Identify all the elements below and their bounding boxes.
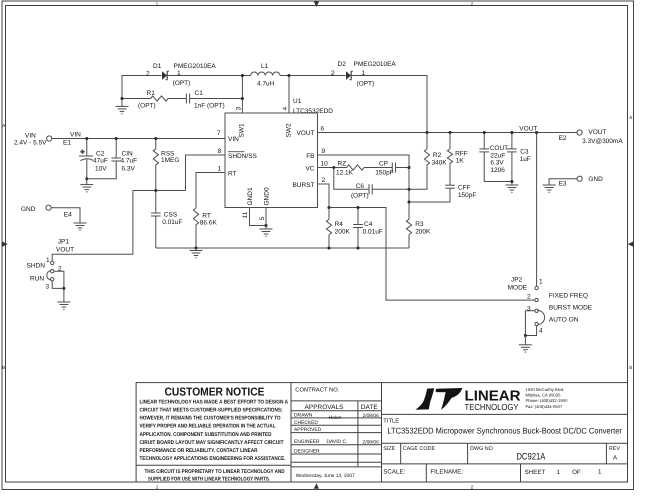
capacitor CIN <box>111 158 121 161</box>
svg-text:200K: 200K <box>335 229 351 236</box>
svg-text:JP1: JP1 <box>58 239 70 246</box>
svg-text:6.3V: 6.3V <box>490 160 504 167</box>
jumper JP1 pin 1 circle <box>51 261 54 264</box>
jumper JP2 pin 4 circle <box>535 322 538 325</box>
jumper JP1 shunt arc <box>47 271 52 281</box>
capacitor C2 (polarized) <box>79 150 93 161</box>
title block outline <box>136 383 627 482</box>
svg-text:4: 4 <box>282 107 289 111</box>
svg-text:86.6K: 86.6K <box>200 220 218 227</box>
resistor R1 <box>151 96 169 101</box>
svg-text:2: 2 <box>322 177 326 184</box>
svg-text:LINEAR TECHNOLOGY HAS MADE A B: LINEAR TECHNOLOGY HAS MADE A BEST EFFORT… <box>140 399 289 405</box>
svg-text:TITLE: TITLE <box>383 418 399 424</box>
svg-text:SHEET: SHEET <box>525 469 546 476</box>
center marker arrow bottom <box>314 483 319 489</box>
op-amp U1 body (LTC3532EDD) <box>225 113 318 208</box>
approvals row line 1 <box>291 417 382 419</box>
svg-text:2: 2 <box>58 266 62 273</box>
logo box bottom line <box>382 413 628 415</box>
svg-text:U1: U1 <box>293 98 302 105</box>
pin GND1 lead <box>250 208 267 226</box>
svg-text:R2: R2 <box>433 152 442 159</box>
wire COUT bottom to C3 ground node <box>484 152 512 182</box>
svg-text:VOUT: VOUT <box>519 125 537 132</box>
title block divider customer-notice/approvals <box>290 383 292 482</box>
svg-text:(OPT): (OPT) <box>351 193 369 200</box>
svg-text:VOUT: VOUT <box>296 130 314 137</box>
svg-text:RUN: RUN <box>30 276 44 283</box>
svg-text:L1: L1 <box>261 63 269 70</box>
svg-text:RT: RT <box>228 170 237 177</box>
capacitor C1 <box>186 94 189 104</box>
svg-text:1: 1 <box>598 468 602 475</box>
resistor RT <box>193 208 198 225</box>
svg-text:1: 1 <box>177 70 181 77</box>
svg-text:FILENAME:: FILENAME: <box>430 469 463 476</box>
svg-text:Milpitas, CA 95035: Milpitas, CA 95035 <box>526 393 562 398</box>
svg-text:SCALE:: SCALE: <box>383 469 405 476</box>
node dot BURST/R4 <box>327 206 330 209</box>
capacitor C4 <box>353 225 363 228</box>
svg-text:(OPT): (OPT) <box>138 103 156 110</box>
customer notice paragraph <box>140 399 289 482</box>
svg-text:R3: R3 <box>415 221 424 228</box>
svg-text:4: 4 <box>539 328 543 335</box>
ground below JP2 <box>524 336 526 345</box>
svg-text:C4: C4 <box>364 221 373 228</box>
svg-text:3.3V@300mA: 3.3V@300mA <box>582 138 623 145</box>
svg-text:E2: E2 <box>559 135 567 142</box>
node dot VIN/CIN <box>115 137 118 140</box>
svg-text:3: 3 <box>46 284 50 291</box>
ground at D1/R1 node <box>121 99 123 107</box>
resistor RSS branch wire top <box>155 139 157 149</box>
capacitor CSS wire top <box>155 191 157 214</box>
svg-text:B: B <box>629 365 632 370</box>
svg-text:2: 2 <box>527 294 531 301</box>
capacitor CFF <box>445 185 455 188</box>
wire VOUT to RFF <box>449 133 451 149</box>
jumper JP2 pin 3 circle <box>535 309 538 312</box>
svg-text:1K: 1K <box>456 158 465 165</box>
svg-text:JP2: JP2 <box>511 277 523 284</box>
pin GND0 lead <box>265 208 267 226</box>
capacitor C3 <box>507 149 517 152</box>
svg-text:SIZE: SIZE <box>383 446 395 452</box>
wire FB pin9 to FB riser <box>318 155 410 219</box>
svg-text:D2: D2 <box>338 61 347 68</box>
wire C4 bottom to rail <box>357 228 359 249</box>
diode D2 <box>346 71 353 79</box>
node dot RT/ground rail <box>194 246 197 249</box>
cagecode/dwgno divider <box>467 443 469 464</box>
svg-text:200K: 200K <box>415 229 431 236</box>
approvals rows text <box>294 413 379 479</box>
approvals row line 4 <box>291 444 382 446</box>
svg-text:1: 1 <box>557 469 561 476</box>
ground below C3 <box>505 185 518 192</box>
svg-text:2/08/06: 2/08/06 <box>363 413 380 419</box>
resistor RSS <box>153 149 158 165</box>
jumper JP2 pin 2 circle <box>535 298 538 301</box>
terminal E3 circle <box>577 176 582 181</box>
ground below JP1 <box>63 288 65 302</box>
wire D1 row left segment <box>122 76 162 99</box>
svg-text:BURST: BURST <box>292 182 314 189</box>
capacitor CP <box>392 163 395 173</box>
svg-text:Fax: (408)434-0507: Fax: (408)434-0507 <box>526 404 563 409</box>
svg-text:CIRUIT BOARD LAYOUT MAY SIGNIF: CIRUIT BOARD LAYOUT MAY SIGNIFICANTLY AF… <box>140 440 285 446</box>
node dot C4 top <box>356 206 359 209</box>
svg-text:DC921A: DC921A <box>516 452 546 463</box>
jumper JP1 pin 2 circle <box>51 270 54 273</box>
svg-text:SW2: SW2 <box>285 123 292 137</box>
wire RT pin to resistor <box>196 173 225 209</box>
wire VIN rail E1 to pin 7 <box>52 138 225 140</box>
svg-text:3: 3 <box>527 306 531 313</box>
svg-text:C2: C2 <box>96 151 105 158</box>
svg-text:SW1: SW1 <box>239 123 246 137</box>
ground below C2 <box>86 179 88 185</box>
svg-text:4.7uF: 4.7uF <box>121 158 138 165</box>
wire R1 to C1 <box>168 98 186 100</box>
svg-text:2.4V - 5.5V: 2.4V - 5.5V <box>14 140 47 147</box>
ground below E3 <box>543 185 556 192</box>
wire L1 to SW2 node to D2 <box>280 75 346 77</box>
wire VOUT to R2 top <box>426 133 428 150</box>
svg-text:GND0: GND0 <box>264 187 271 205</box>
svg-text:(OPT): (OPT) <box>357 81 375 88</box>
svg-text:1630 McCarthy Blvd.: 1630 McCarthy Blvd. <box>526 387 565 392</box>
svg-text:2: 2 <box>331 70 335 77</box>
svg-text:DATE: DATE <box>361 404 378 411</box>
svg-text:RFF: RFF <box>455 151 468 158</box>
wire RT bottom to rail <box>195 225 197 248</box>
capacitor C2 branch wire top <box>86 139 88 156</box>
node dot JP1 ground <box>62 287 65 290</box>
capacitor COUT <box>479 149 489 152</box>
inductor L1 <box>251 72 280 75</box>
svg-text:PMEG2010EA: PMEG2010EA <box>174 63 217 70</box>
svg-text:C6: C6 <box>356 183 365 190</box>
wire RFF to CFF <box>449 163 451 185</box>
center marker arrow left <box>2 242 8 247</box>
wire SW1 pin riser <box>241 76 243 114</box>
svg-text:E4: E4 <box>64 212 72 219</box>
svg-text:BURST MODE: BURST MODE <box>549 305 593 312</box>
svg-text:VERIFY PROPER AND RELIABLE OPE: VERIFY PROPER AND RELIABLE OPERATION IN … <box>140 424 277 430</box>
svg-text:MODE: MODE <box>508 285 528 292</box>
svg-text:E3: E3 <box>559 181 567 188</box>
svg-text:Phone: (408)432-1900: Phone: (408)432-1900 <box>526 398 569 403</box>
node dot JP2 ground <box>524 334 527 337</box>
svg-text:10V: 10V <box>95 166 107 173</box>
node dot RSS/CSS <box>154 189 157 192</box>
svg-text:SHDN/SS: SHDN/SS <box>228 153 258 160</box>
svg-text:HOWEVER, IT REMAINS THE CUSTOM: HOWEVER, IT REMAINS THE CUSTOMER'S RESPO… <box>140 416 281 422</box>
svg-text:R1: R1 <box>147 90 156 97</box>
svg-text:8: 8 <box>218 148 222 155</box>
svg-text:AUTO ON: AUTO ON <box>549 317 579 324</box>
svg-text:PERFORMANCE OR RELIABILITY. C: PERFORMANCE OR RELIABILITY. CONTACT LINE… <box>140 448 258 454</box>
wire CFF bottom to FB node <box>409 188 450 202</box>
wire RZ to CP <box>364 167 392 169</box>
wire C2 bottom to ground node <box>86 159 88 178</box>
wire R4 top stub <box>328 208 330 220</box>
terminal E4 circle <box>46 205 51 210</box>
svg-text:VC: VC <box>305 165 314 172</box>
wire JP2 pin4 to ground drop <box>525 326 536 336</box>
svg-text:CUSTOMER NOTICE: CUSTOMER NOTICE <box>165 386 265 398</box>
node dot SW1/L1 <box>241 74 244 77</box>
wire RSS bottom to SS node <box>155 165 157 191</box>
diode D1 <box>162 71 169 79</box>
svg-text:CAGE CODE: CAGE CODE <box>403 446 436 452</box>
wire R2 bottom to FB node <box>409 165 427 189</box>
svg-text:VIN: VIN <box>25 133 36 140</box>
node dot FB/CP <box>407 166 410 169</box>
svg-text:DRAWN: DRAWN <box>294 413 313 419</box>
svg-text:10: 10 <box>321 160 329 167</box>
svg-text:22uF: 22uF <box>490 152 505 159</box>
svg-text:CP: CP <box>379 161 388 168</box>
svg-text:FB: FB <box>306 153 314 160</box>
node dot FB/CFF <box>407 200 410 203</box>
resistor R4 <box>326 219 331 234</box>
svg-text:R4: R4 <box>335 221 344 228</box>
overline on SHDN pin name <box>228 151 245 153</box>
wire BURST pin2 down <box>318 184 330 208</box>
size row bottom line <box>382 463 628 465</box>
svg-text:6: 6 <box>321 125 325 132</box>
wire SS node horizontal <box>133 190 186 192</box>
approvals row line 6 <box>291 461 382 463</box>
node dot GND0/GND1 <box>264 224 267 227</box>
svg-text:VOUT: VOUT <box>56 247 74 254</box>
node dot D1/R1/ground <box>120 97 123 100</box>
approvals row line 3 <box>291 432 382 434</box>
wire D2 to corner then down to VOUT rail <box>351 76 427 133</box>
wire burst top rail to JP2 drop <box>329 208 535 301</box>
scale/filename divider <box>425 464 427 482</box>
svg-text:A: A <box>2 123 5 128</box>
node dot VC/C6 branch <box>332 166 335 169</box>
wire VOUT rail pin6 to E2 <box>318 132 578 134</box>
svg-text:3: 3 <box>235 107 242 111</box>
node dot COUT top <box>483 131 486 134</box>
svg-text:12.1K: 12.1K <box>336 170 354 177</box>
svg-text:1uF: 1uF <box>520 156 531 163</box>
node dot C3 top <box>510 131 513 134</box>
svg-text:RT: RT <box>202 213 211 220</box>
node dot C4/rail <box>356 246 359 249</box>
wire CIN bottom to ground node <box>87 161 116 179</box>
ground below E4 <box>74 223 87 230</box>
svg-text:DAVID C.: DAVID C. <box>327 439 348 445</box>
svg-text:1: 1 <box>46 257 50 264</box>
node dot SW1/R1C1 <box>241 97 244 100</box>
svg-text:1nF (OPT): 1nF (OPT) <box>194 103 225 110</box>
svg-text:SUPPLIED FOR USE WITH LINEAR T: SUPPLIED FOR USE WITH LINEAR TECHNOLOGY … <box>148 477 270 483</box>
svg-text:7: 7 <box>217 130 221 137</box>
svg-text:APPLICATION. COMPONENT SUBSTI: APPLICATION. COMPONENT SUBSTITUTION AND … <box>140 432 272 438</box>
svg-text:TECHNOLOGY APPLICATIONS ENGINE: TECHNOLOGY APPLICATIONS ENGINEERING FOR … <box>140 456 286 462</box>
wire C3 bottom to ground <box>511 152 513 185</box>
node dot COUT/C3 ground <box>510 180 513 183</box>
svg-text:LTC3532EDD Micropower Synchron: LTC3532EDD Micropower Synchronous Buck-B… <box>387 426 622 436</box>
wire SW2 pin riser <box>288 76 290 114</box>
svg-text:VIN: VIN <box>70 132 81 139</box>
svg-text:TECHNOLOGY: TECHNOLOGY <box>465 402 519 412</box>
ground rail bottom left <box>156 247 409 249</box>
approvals date column divider <box>357 401 359 467</box>
svg-text:ENGINEER: ENGINEER <box>294 439 320 445</box>
svg-text:APPROVALS: APPROVALS <box>305 404 344 411</box>
svg-text:1: 1 <box>362 70 366 77</box>
wire R1/C1 row <box>122 98 151 100</box>
approvals table bottom line <box>291 466 382 468</box>
svg-text:6.3V: 6.3V <box>122 166 136 173</box>
svg-text:CIN: CIN <box>122 151 134 158</box>
wire JP1 pin2 to ground drop <box>54 271 64 288</box>
svg-text:340K: 340K <box>432 160 448 167</box>
capacitor CIN branch wire top <box>115 139 117 159</box>
wire JP1 pin3 to ground drop <box>52 281 64 288</box>
svg-text:LTC3532EDD: LTC3532EDD <box>293 108 333 115</box>
svg-text:SHDN: SHDN <box>27 263 46 270</box>
title area bottom line <box>382 442 628 444</box>
terminal E1 circle <box>47 136 52 141</box>
resistor R2 <box>424 149 429 165</box>
capacitor COUT top stub <box>483 133 485 149</box>
node dot SW2/L1/D2 <box>287 74 290 77</box>
svg-text:PMEG2010EA: PMEG2010EA <box>354 61 397 68</box>
svg-text:1: 1 <box>218 165 222 172</box>
node dot C2/CIN ground <box>85 177 88 180</box>
svg-text:2: 2 <box>146 71 150 78</box>
svg-text:VIN: VIN <box>228 136 239 143</box>
svg-text:CSS: CSS <box>164 212 178 219</box>
wire E4 to ground <box>51 208 80 223</box>
svg-text:OF: OF <box>572 469 581 476</box>
node dot VOUT/JP2 riser <box>535 131 538 134</box>
svg-text:APPROVED: APPROVED <box>294 427 322 433</box>
wire riser to pin 8 SHDN/SS <box>186 155 226 191</box>
svg-text:CHECKED: CHECKED <box>294 420 318 426</box>
svg-text:1: 1 <box>539 279 543 286</box>
svg-text:CIRCUIT THAT MEETS CUSTOMER-SU: CIRCUIT THAT MEETS CUSTOMER-SUPPLIED SPE… <box>140 408 283 414</box>
linear technology logo mark <box>415 388 462 410</box>
customer notice lower divider <box>136 464 291 466</box>
wire JP2 pin3 to ground drop <box>525 311 535 336</box>
node dot FB/C6/R2 <box>407 188 410 191</box>
capacitor C3 top stub <box>511 133 513 149</box>
svg-text:4.7uH: 4.7uH <box>257 80 275 87</box>
resistor RZ <box>347 165 365 170</box>
center marker arrow right <box>628 242 634 247</box>
svg-text:FIXED FREQ: FIXED FREQ <box>549 293 588 300</box>
svg-text:GND: GND <box>588 176 603 183</box>
svg-text:C1: C1 <box>195 90 204 97</box>
capacitor C6 <box>369 184 372 194</box>
filename/sheet divider <box>520 464 522 482</box>
wire R3 bottom to ground rail <box>408 235 410 249</box>
svg-text:B: B <box>2 365 5 370</box>
wire C6 branch from VC node <box>334 168 369 190</box>
svg-text:COUT: COUT <box>490 145 508 152</box>
wire C6 to FB riser <box>372 188 409 190</box>
node dot VIN/C2 <box>85 137 88 140</box>
svg-text:A: A <box>629 115 632 120</box>
svg-text:5: 5 <box>259 216 266 220</box>
wire R4 bottom to rail <box>328 235 330 248</box>
node dot RFF top <box>448 131 451 134</box>
title block divider approvals/right-part <box>381 383 383 482</box>
jumper JP2 shunt arc <box>537 310 544 325</box>
svg-text:D1: D1 <box>153 63 162 70</box>
node dot VIN/RSS <box>154 137 157 140</box>
address block <box>526 387 569 409</box>
size/cagecode divider <box>400 443 402 464</box>
node dot R4/rail <box>327 246 330 249</box>
wire D1 to SW1 node <box>167 75 242 77</box>
svg-text:11: 11 <box>242 211 249 218</box>
svg-text:1MEG: 1MEG <box>161 157 179 164</box>
contract no. box bottom line <box>291 400 382 402</box>
capacitor C4 top stub <box>357 208 359 225</box>
svg-text:E1: E1 <box>63 140 71 147</box>
resistor R3 <box>406 219 411 234</box>
wire E3 to ground <box>549 179 577 185</box>
terminal E2 circle <box>577 130 582 135</box>
approvals row line 5 <box>291 453 382 455</box>
jumper JP2 pin 1 circle <box>535 286 538 289</box>
svg-text:150pF: 150pF <box>375 170 393 177</box>
wire VC pin10 to RZ <box>318 167 347 169</box>
svg-text:GND1: GND1 <box>247 187 254 205</box>
center marker arrow top <box>314 2 319 8</box>
svg-text:0.01uF: 0.01uF <box>363 229 383 236</box>
svg-text:47uF: 47uF <box>93 158 108 165</box>
dwgno/rev divider <box>605 443 607 464</box>
ground below RT rail <box>195 248 197 251</box>
svg-text:THIS CIRCUIT IS PROPRIETARY TO: THIS CIRCUIT IS PROPRIETARY TO LINEAR TE… <box>145 469 285 475</box>
svg-text:(OPT): (OPT) <box>173 80 191 87</box>
svg-text:DESIGNER: DESIGNER <box>294 448 320 454</box>
wire C1 to SW1 riser <box>190 98 243 100</box>
wire CP to FB riser <box>396 167 410 169</box>
capacitor CSS <box>151 213 161 216</box>
jumper JP1 pin 3 circle <box>51 278 54 281</box>
svg-text:150pF: 150pF <box>458 192 476 199</box>
ground below U1 <box>265 226 267 230</box>
wire L1 row (SW1 node to SW2 node) <box>242 75 250 77</box>
svg-text:1206: 1206 <box>490 167 505 174</box>
wire CSS bottom to ground rail <box>155 216 157 248</box>
wire JP2 pin1 riser <box>536 133 538 287</box>
svg-text:9: 9 <box>322 148 326 155</box>
svg-text:RZ: RZ <box>338 161 347 168</box>
svg-text:VOUT: VOUT <box>588 129 606 136</box>
svg-text:REV: REV <box>609 446 620 452</box>
wire JP1 riser from SS node <box>52 191 133 262</box>
svg-text:C3: C3 <box>520 149 529 156</box>
approvals row line 2 <box>291 424 382 426</box>
svg-text:CONTRACT NO.: CONTRACT NO. <box>295 387 339 394</box>
svg-text:0.01uF: 0.01uF <box>162 219 182 226</box>
svg-text:Helen: Helen <box>329 415 342 421</box>
